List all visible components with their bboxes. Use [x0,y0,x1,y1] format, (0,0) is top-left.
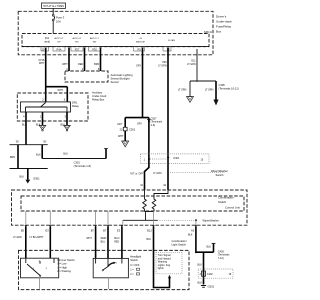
svg-text:Fuse 3: Fuse 3 [56,16,65,20]
svg-text:AUTO LT: AUTO LT [54,37,64,40]
svg-text:G501: G501 [208,285,215,289]
svg-text:0 = Low: 0 = Low [57,262,66,266]
svg-text:C402: C402 [207,273,213,276]
svg-text:Combination: Combination [172,239,188,243]
svg-text:P9: P9 [137,47,141,51]
svg-text:‘UP’: ‘UP’ [57,41,62,43]
svg-text:Dimmer Switch: Dimmer Switch [57,258,75,262]
svg-text:2 =: 2 = [130,273,134,276]
svg-text:RED: RED [78,63,83,66]
svg-text:7-12): 7-12) [218,257,224,260]
svg-text:WHT: WHT [62,63,68,66]
svg-text:‘06’: ‘06’ [43,141,47,144]
svg-text:Relay: Relay [72,104,80,108]
svg-text:AUTO LT: AUTO LT [72,37,82,40]
svg-text:BLK: BLK [19,175,24,178]
svg-text:used): used) [44,41,50,43]
svg-text:Wiper/Washer: Wiper/Washer [203,219,219,223]
svg-text:WHT: WHT [39,62,45,65]
svg-text:BLK: BLK [63,152,68,155]
svg-text:BLK: BLK [22,124,27,127]
svg-text:Control Unit: Control Unit [225,206,240,210]
svg-text:lights: lights [158,267,165,270]
svg-text:Switch: Switch [218,200,227,204]
svg-text:BACKUP: BACKUP [136,40,146,43]
svg-text:WHT: WHT [86,237,92,240]
svg-text:B7: B7 [91,229,95,233]
svg-text:E3: E3 [117,229,121,233]
svg-text:Headlight: Headlight [130,255,141,259]
svg-text:A3: A3 [191,229,195,233]
svg-text:AUTO LT: AUTO LT [90,37,100,40]
svg-text:1 =: 1 = [130,269,134,272]
svg-text:10A: 10A [56,20,61,24]
svg-text:Switch: Switch [130,258,138,262]
svg-text:LT GRN: LT GRN [205,88,214,91]
svg-text:Under-hood: Under-hood [92,94,107,98]
svg-text:2 = Passing: 2 = Passing [57,269,71,273]
svg-text:Sensor: Sensor [111,80,120,84]
svg-text:D11: D11 [191,60,196,63]
svg-text:‘05’: ‘05’ [15,141,19,144]
svg-text:WHT: WHT [58,89,64,92]
svg-text:Driver’s: Driver’s [216,15,227,19]
svg-text:‘NG’: ‘NG’ [92,41,97,43]
svg-text:GRY: GRY [117,123,123,126]
svg-text:C501: C501 [129,128,136,131]
svg-text:Sensor/Sunlight: Sensor/Sunlight [111,77,130,81]
svg-text:LT GRN: LT GRN [13,236,22,239]
svg-text:P30: P30 [92,47,97,51]
svg-text:Switch: Switch [216,173,224,177]
svg-text:Under-dash: Under-dash [216,20,232,24]
svg-text:BLK: BLK [197,264,202,267]
svg-text:RED: RED [114,240,119,243]
svg-text:BRN: BRN [94,63,99,66]
svg-text:LT GRN: LT GRN [158,64,167,67]
svg-text:Light Switch: Light Switch [172,243,187,247]
svg-text:BLU: BLU [101,240,106,243]
svg-text:BLK: BLK [36,153,41,156]
svg-text:Wiper/Washer: Wiper/Washer [211,169,228,173]
svg-text:(Terminals 10-12): (Terminals 10-12) [219,86,239,90]
svg-text:WHT: WHT [118,135,124,138]
svg-text:E3: E3 [45,229,49,233]
svg-text:GRY: GRY [136,65,142,68]
svg-text:‘NO’: ‘NO’ [75,41,80,43]
svg-text:BLK: BLK [188,233,193,236]
svg-text:Auxiliary: Auxiliary [92,91,103,95]
svg-text:‘INT’ or ‘OFF’: ‘INT’ or ‘OFF’ [130,172,144,175]
svg-text:(Terminals 1-8): (Terminals 1-8) [74,164,91,168]
svg-text:B CAN: B CAN [168,39,175,42]
svg-text:LT GRN: LT GRN [187,63,196,66]
svg-text:0 = OFF: 0 = OFF [130,264,140,267]
svg-text:H26: H26 [162,61,167,64]
svg-text:HOT AT ALL TIMES: HOT AT ALL TIMES [43,5,64,8]
svg-text:BLK: BLK [206,245,211,248]
svg-text:C305: C305 [219,83,226,87]
svg-text:4-6): 4-6) [151,124,156,127]
svg-text:Fuse/Relay: Fuse/Relay [216,25,232,29]
svg-text:BRN: BRN [10,156,15,159]
svg-text:B7: B7 [103,229,107,233]
svg-text:(Not: (Not [45,37,50,40]
svg-text:B12: B12 [147,229,152,233]
svg-text:LT BLU/WHT: LT BLU/WHT [30,236,45,239]
svg-text:LT GRN: LT GRN [178,88,187,91]
svg-text:C310: C310 [74,160,81,164]
svg-text:LT GRN: LT GRN [153,173,162,175]
svg-text:BLK: BLK [147,238,152,241]
svg-text:D401: D401 [174,157,180,160]
svg-text:G301: G301 [33,176,40,180]
svg-text:P27: P27 [75,47,80,51]
svg-text:BLK: BLK [197,281,202,284]
svg-text:Relay Box: Relay Box [92,98,105,102]
svg-text:Automatic Lighting: Automatic Lighting [111,73,134,77]
svg-text:1 = High: 1 = High [57,265,67,269]
svg-text:DRL: DRL [72,101,78,105]
svg-text:P4A: P4A [57,47,62,51]
svg-text:MICU: MICU [204,30,212,34]
svg-text:Combination: Combination [218,196,234,200]
svg-text:GRY: GRY [137,122,143,125]
svg-text:Box: Box [216,30,222,34]
svg-text:B3: B3 [21,229,25,233]
